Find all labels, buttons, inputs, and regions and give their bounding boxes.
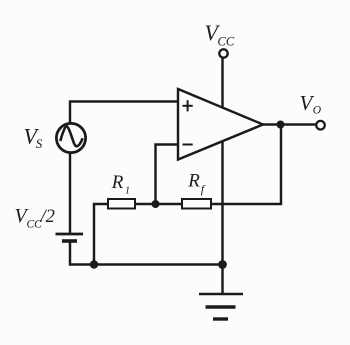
svg-text:R: R (187, 171, 200, 192)
wire Vs bottom to battery top (69, 154, 71, 234)
op-amp plus sign (183, 100, 193, 111)
label Vo (300, 91, 322, 117)
label R1 (111, 172, 130, 197)
wire R1 left branch (node B down to bottom rail) (94, 204, 108, 265)
label Vcc/2 (15, 205, 55, 231)
wire Vcc terminal down to op-amp top edge (221, 58, 223, 107)
wire R1 right to Rf left (135, 203, 182, 205)
wire op-amp bottom edge down to ground (221, 141, 223, 294)
terminal circle Vo (316, 121, 325, 130)
wire battery bottom down and bottom rail (70, 242, 223, 265)
terminal circle Vcc (219, 49, 227, 57)
svg-text:R: R (111, 172, 124, 193)
battery Vcc/2 long plate (56, 233, 84, 236)
op-amp U1 triangle (178, 89, 263, 160)
battery Vcc/2 short plate (62, 239, 77, 243)
svg-text:S: S (36, 136, 43, 151)
wire Rf right to feedback corner (211, 125, 281, 205)
resistor R1 body (108, 199, 135, 209)
label Rf (187, 171, 206, 197)
svg-text:1: 1 (125, 186, 130, 197)
label Vs (24, 124, 43, 152)
junction dot node B (bottom rail left) (90, 260, 98, 268)
op-amp minus sign (183, 144, 193, 146)
svg-text:CC: CC (218, 35, 235, 49)
wire op-amp output to Vo terminal (263, 123, 316, 125)
junction dot bottom rail at ground (218, 260, 227, 269)
wire Vs top to op-amp + input (70, 102, 178, 123)
label Vcc (205, 20, 235, 49)
source Vs circle with sine (56, 123, 85, 152)
svg-text:f: f (201, 182, 206, 196)
junction dot node A (R1/Rf/inverting) (152, 200, 160, 208)
svg-text:O: O (313, 105, 322, 117)
wire inverting input: node A up and into op-amp (156, 145, 179, 205)
junction dot at output (277, 121, 285, 129)
svg-text:/2: /2 (40, 207, 55, 227)
resistor Rf body (182, 199, 211, 209)
ground symbol (199, 294, 243, 319)
